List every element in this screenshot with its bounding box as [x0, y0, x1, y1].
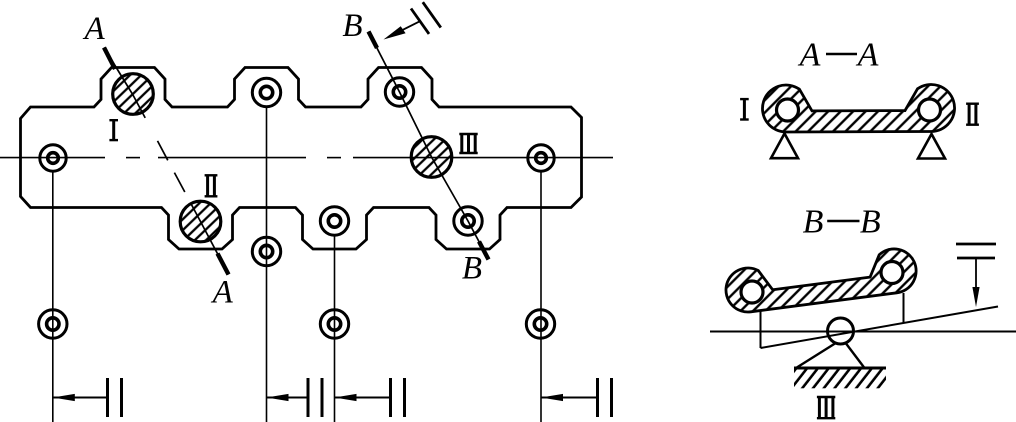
ground hatch (B-B): [794, 369, 886, 388]
section line A dash 1: [158, 141, 168, 160]
hole right in B-B: [881, 262, 903, 284]
label III (B-B): [817, 396, 835, 398]
measure circle II hatched: [180, 201, 221, 242]
measure circle III hatched: [411, 137, 452, 178]
svg-text:A: A: [798, 37, 821, 74]
label II (A-A): [966, 102, 979, 104]
hole below-plate x=266: [252, 237, 280, 265]
indicator symbol (B-B): [956, 243, 996, 246]
hole left in B-B: [741, 281, 763, 303]
hole below-plate x=52: [39, 310, 67, 338]
section line A thick end bottom: [218, 254, 229, 275]
measure circle I hatched: [113, 74, 154, 115]
indicator symbol bottom 3: [335, 397, 391, 399]
section line A dash 2: [174, 173, 184, 192]
section B-B link body hatched: [726, 249, 916, 312]
section line B thin: [369, 32, 488, 258]
support ball (B-B): [828, 318, 854, 344]
hole bottom boss 2: [320, 207, 348, 235]
left leg line (B-B): [760, 311, 762, 348]
plate outline: [21, 68, 582, 250]
svg-text:A: A: [211, 275, 234, 311]
section line A thin solid top (through circle I): [104, 48, 145, 118]
hole top boss 3: [385, 78, 413, 106]
label I: [109, 119, 118, 121]
indicator symbol at section B top: [411, 9, 429, 34]
support triangle left (A-A): [771, 134, 798, 159]
vertical centerlines: [53, 107, 541, 422]
section line A thin solid bottom (through circle II): [190, 203, 228, 275]
support triangle right (A-A): [918, 134, 945, 159]
hole right (on centerline): [528, 145, 554, 171]
indicator symbol bottom 2: [267, 397, 309, 399]
support triangle left leg (B-B): [796, 344, 835, 369]
svg-text:A: A: [856, 37, 879, 74]
label III: [459, 133, 477, 135]
svg-text:B: B: [803, 204, 824, 241]
horizontal base line (B-B): [710, 331, 1016, 333]
hole top boss 2: [252, 78, 280, 106]
tilted measuring line (B-B): [761, 307, 999, 349]
hole below-plate x=334: [320, 310, 348, 338]
hole bottom boss 3: [454, 207, 482, 235]
section line B thick end top: [369, 32, 378, 49]
label II: [205, 174, 218, 176]
svg-text:A: A: [83, 11, 106, 47]
hole II in A-A: [919, 99, 941, 121]
horizontal centerline: [0, 157, 613, 159]
section A-A link body hatched: [762, 85, 954, 133]
label I (A-A): [740, 98, 749, 100]
svg-text:B: B: [860, 204, 881, 241]
indicator symbol bottom 4: [541, 397, 598, 399]
indicator symbol bottom 1: [53, 397, 108, 399]
svg-text:B: B: [462, 251, 482, 287]
right leg line (B-B): [903, 293, 905, 323]
svg-text:B: B: [342, 8, 362, 44]
support triangle right leg (B-B): [846, 344, 865, 369]
ground line (B-B): [794, 367, 886, 370]
section line A thick end top: [104, 48, 115, 70]
hole I in A-A: [777, 99, 799, 121]
hole below-plate x=541: [526, 310, 554, 338]
section line B thick end bottom: [479, 242, 489, 260]
hole left (on centerline): [40, 145, 66, 171]
